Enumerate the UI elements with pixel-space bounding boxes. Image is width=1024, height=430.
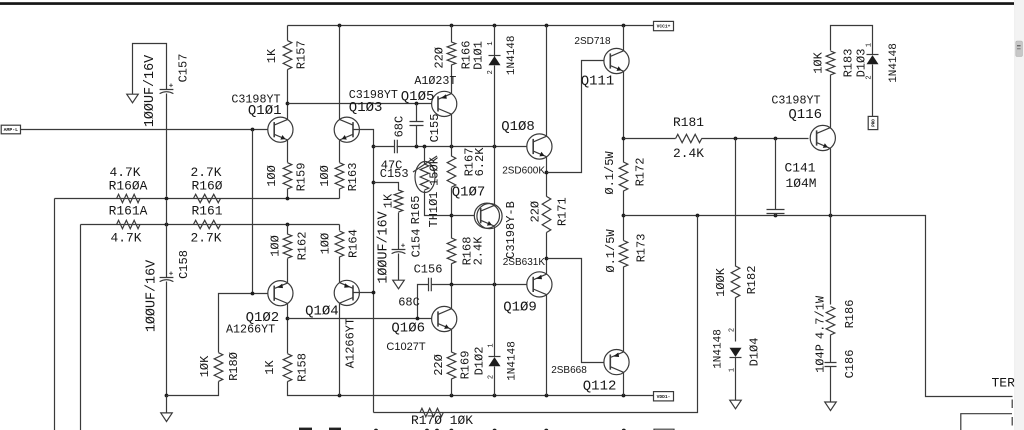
node Q102 collector / Q106 base line — [286, 317, 290, 321]
wire input col to C158 — [166, 201, 168, 278]
svg-text:C154: C154 — [409, 229, 423, 258]
svg-text:4.7K: 4.7K — [111, 231, 142, 246]
net label VCC1+ — [654, 21, 674, 30]
svg-text:1ØØ: 1ØØ — [268, 235, 282, 257]
node Q101 collector — [286, 102, 290, 106]
wire D102 bottom lead — [494, 367, 496, 396]
svg-text:1ØØ: 1ØØ — [318, 165, 332, 187]
wire C186 to ground — [830, 367, 832, 403]
svg-text:R165: R165 — [409, 196, 423, 225]
svg-text:VCC1+: VCC1+ — [657, 24, 671, 30]
svg-text:R169: R169 — [459, 351, 473, 380]
scrollbar thumb — [1016, 41, 1023, 57]
bottom cut text marks — [299, 428, 312, 430]
wire Q106 base row — [288, 318, 432, 320]
wire Q108 emitter — [546, 157, 548, 197]
svg-text:2SB668: 2SB668 — [551, 365, 587, 376]
net label PRO — [868, 116, 878, 129]
svg-text:R16Ø: R16Ø — [192, 179, 223, 194]
svg-text:Q116: Q116 — [788, 107, 822, 123]
resistor R181 2.4K — [676, 134, 702, 142]
svg-text:1: 1 — [865, 43, 873, 47]
svg-text:VDD1-: VDD1- — [657, 394, 671, 400]
svg-text:1ØØUF/16V: 1ØØUF/16V — [144, 260, 159, 332]
bottom cut dot — [544, 429, 548, 430]
svg-text:C186: C186 — [843, 350, 857, 379]
node neg rail Q109 collector — [545, 394, 549, 398]
wire left column B — [80, 225, 82, 430]
resistor R161 2.7K — [193, 220, 220, 228]
svg-text:22Ø: 22Ø — [433, 47, 447, 69]
svg-text:R186: R186 — [843, 300, 857, 329]
wire Q101 emitter to R159 — [287, 141, 289, 163]
node Q102 base — [251, 292, 255, 296]
resistor R186 4.7/1W — [826, 307, 835, 336]
wire Q116 collector to R183 — [830, 75, 832, 128]
svg-text:Q1Ø7: Q1Ø7 — [452, 184, 486, 200]
svg-text:Q1Ø8: Q1Ø8 — [501, 119, 535, 135]
svg-text:2SD600K: 2SD600K — [502, 166, 545, 177]
node row2-R162 — [286, 223, 290, 227]
terminal box 2 — [961, 414, 1012, 430]
svg-text:1N4148: 1N4148 — [506, 341, 518, 381]
svg-text:2.7K: 2.7K — [191, 231, 222, 246]
diode D102 1N4148 — [489, 356, 501, 358]
svg-text:R162: R162 — [295, 232, 309, 261]
wire C141 bottom lead — [775, 214, 777, 216]
wire Q112 collector to neg rail — [623, 373, 625, 396]
diode D101 1N4148 — [489, 55, 501, 57]
wire C158 to ground rail — [166, 282, 168, 396]
node C155 bottom — [415, 145, 419, 149]
svg-text:Q1Ø6: Q1Ø6 — [391, 321, 425, 337]
svg-text:68C: 68C — [398, 295, 420, 309]
svg-text:Q1Ø3: Q1Ø3 — [349, 100, 383, 116]
svg-text:1ØØ: 1ØØ — [265, 165, 279, 187]
node D102 top / Q107 emitter — [493, 283, 497, 287]
svg-text:R159: R159 — [295, 163, 309, 192]
wire input from AMP-L — [21, 129, 268, 131]
node input/base Q101 — [251, 128, 255, 132]
wire C153 right to Q108 base — [397, 146, 527, 148]
wire left column A — [54, 199, 56, 430]
transistor Q107 C3198Y-B — [474, 203, 499, 228]
wire R164 to Q104 emitter — [339, 257, 341, 283]
svg-text:1Ø4P: 1Ø4P — [814, 344, 828, 373]
node rail junction x339 — [338, 24, 342, 28]
capacitor C141 104M — [767, 210, 785, 214]
resistor R167 6.2K — [447, 156, 456, 187]
node rail junction x546 — [545, 24, 549, 28]
node row1-R159 — [286, 197, 290, 201]
wire R173 to Q112 emitter — [623, 267, 625, 352]
svg-text:C3198YT: C3198YT — [771, 94, 820, 108]
bottom cut dot — [337, 429, 341, 430]
wire R162 bottom to Q102 emitter — [287, 225, 289, 235]
wire D103 to PRO — [872, 65, 874, 117]
connector AMP-L — [1, 125, 20, 134]
svg-text:R171: R171 — [555, 197, 569, 226]
node output / right bus — [696, 214, 700, 218]
wire R169 to neg rail — [451, 379, 453, 396]
ground for C186 — [825, 402, 837, 411]
wire rail to Q103 collector — [339, 26, 341, 120]
resistor R157 1K — [283, 41, 292, 70]
capacitor C157 100UF/16V — [160, 90, 174, 94]
wire R165 top jog — [374, 183, 399, 191]
node C155 top tap — [415, 102, 419, 106]
wire Q107 emitter — [494, 227, 496, 285]
node TH101 top — [423, 145, 427, 149]
node feedback at R165 — [372, 181, 376, 185]
svg-text:R158: R158 — [295, 353, 309, 382]
svg-text:1N4148: 1N4148 — [712, 329, 724, 369]
svg-text:C156: C156 — [414, 262, 443, 276]
resistor R159 100 — [283, 163, 292, 189]
svg-text:Q1Ø1: Q1Ø1 — [248, 103, 282, 119]
resistor R182 100K — [731, 266, 740, 298]
node Q116 emitter — [829, 214, 833, 218]
node D101 bottom / Q107 collector — [493, 145, 497, 149]
node neg rail Q104 collector — [338, 394, 342, 398]
svg-text:2: 2 — [487, 70, 495, 74]
wire gnd stub — [166, 396, 168, 413]
capacitor C154 100UF/16V — [392, 250, 406, 254]
resistor R161A 4.7K — [117, 220, 140, 228]
wire to Q112 base — [547, 259, 605, 363]
wire output row — [624, 216, 1013, 397]
node R182 top — [734, 137, 738, 141]
wire Q106 emitter to R169 — [451, 330, 453, 353]
svg-text:C141: C141 — [785, 161, 816, 176]
svg-text:R18Ø: R18Ø — [227, 352, 241, 381]
wire R166 to Q105 emitter — [451, 65, 453, 94]
wire Q105 base row — [288, 103, 432, 105]
resistor R158 1K — [283, 354, 292, 382]
wire Q116 emitter — [830, 149, 832, 305]
wire row1 to R163 — [339, 189, 341, 199]
resistor R160 2.7K — [193, 194, 220, 202]
node C158 ground — [165, 394, 169, 398]
resistor R160A 4.7K — [117, 194, 140, 202]
wire C141 top lead — [775, 139, 777, 210]
svg-text:C1027T: C1027T — [386, 341, 425, 353]
wire R180 top to Q102 base — [219, 294, 268, 353]
resistor R165 1K — [394, 190, 403, 212]
ground for C157 — [127, 94, 139, 103]
wire R182 top lead — [735, 139, 737, 267]
node rail junction x494 — [493, 24, 497, 28]
wire R167 to node — [451, 188, 453, 239]
resistor R164 100 — [335, 231, 344, 257]
node R168/Q106 collector — [450, 283, 454, 287]
node Q104 base / feedback column — [372, 291, 376, 295]
wire TH101 bottom to Q107 base node — [425, 191, 452, 216]
bottom cut dot — [622, 429, 626, 430]
wire row1 — [55, 198, 340, 200]
svg-text:Ø.1/5W: Ø.1/5W — [604, 229, 618, 273]
wire R186 to C186 — [830, 335, 832, 363]
node Q107 base / TH101 — [450, 214, 454, 218]
wire D102 top lead — [494, 285, 496, 357]
wire D101 bottom lead — [494, 66, 496, 147]
wire R166 top — [451, 26, 453, 43]
wire to Q111 base — [547, 61, 605, 173]
svg-text:2SD718: 2SD718 — [574, 36, 611, 47]
svg-text:Q111: Q111 — [581, 73, 615, 89]
wire C156 left bend — [418, 285, 429, 319]
resistor R162 100 — [283, 234, 292, 258]
node Q111 emitter / R181 — [622, 137, 626, 141]
bottom cut dot — [435, 429, 439, 430]
transistor Q112 2SB668 — [604, 350, 629, 375]
node neg rail D102 bottom — [493, 394, 497, 398]
wire R181 to Q116 base — [702, 138, 809, 140]
svg-text:1ØØUF/16V: 1ØØUF/16V — [376, 211, 391, 283]
resistor R183 10K — [826, 51, 835, 75]
svg-text:D1Ø3: D1Ø3 — [855, 49, 869, 78]
transistor Q108 2SD600K — [527, 134, 552, 159]
wire C155 top lead — [416, 104, 418, 122]
svg-text:Q112: Q112 — [583, 378, 617, 394]
svg-text:1ØØUF/16V: 1ØØUF/16V — [143, 55, 158, 127]
svg-text:22Ø: 22Ø — [432, 354, 446, 376]
svg-text:C153: C153 — [380, 167, 409, 181]
svg-text:Ø.1/5W: Ø.1/5W — [603, 151, 617, 195]
scrollbar track — [1015, 0, 1024, 430]
resistor R170 10K — [420, 408, 443, 416]
wire Q103 base — [353, 130, 374, 413]
svg-text:4.7/1W: 4.7/1W — [814, 295, 828, 339]
node rail junction x623 — [622, 24, 626, 28]
resistor R168 2.4K — [447, 238, 456, 264]
wire C155 bottom lead — [416, 126, 418, 147]
node C156 tap on Q106 base — [416, 317, 420, 321]
svg-text:Q1Ø9: Q1Ø9 — [503, 299, 537, 315]
svg-text:R161: R161 — [192, 203, 223, 218]
svg-text:C3198Y-B: C3198Y-B — [504, 201, 518, 259]
svg-text:1K: 1K — [263, 360, 277, 375]
svg-text:R16ØA: R16ØA — [109, 179, 148, 194]
wire Q107 base — [452, 215, 475, 217]
diode D103 1N4148 — [867, 54, 879, 56]
svg-text:AMP-L: AMP-L — [4, 127, 19, 133]
wire R157 to Q101 collector — [287, 70, 289, 120]
svg-text:C155: C155 — [428, 114, 442, 143]
wire row2 — [81, 224, 340, 226]
svg-text:2.4K: 2.4K — [472, 236, 486, 266]
wire Q108 collector to rail — [546, 26, 548, 137]
svg-text:D1Ø2: D1Ø2 — [473, 347, 487, 376]
wire Q111 emitter — [623, 72, 625, 163]
wire R171 to Q109 emitter — [546, 233, 548, 275]
wire R164 — [339, 230, 341, 232]
wire row2 to R164 — [339, 225, 341, 231]
wire C157 to input line — [166, 94, 168, 197]
svg-text:C157: C157 — [177, 54, 191, 83]
bottom cut dot — [374, 429, 378, 430]
transistor Q109 2SB631K — [527, 272, 552, 297]
svg-text:15ØK: 15ØK — [428, 156, 442, 186]
wire R183 top loop — [831, 26, 873, 55]
svg-text:2.4K: 2.4K — [673, 146, 704, 161]
wire C156 to Q109 base — [432, 284, 527, 286]
svg-text:R157: R157 — [295, 40, 309, 69]
svg-text:PRO: PRO — [873, 119, 877, 127]
wire R157 top — [287, 26, 289, 41]
thermistor TH101 ellipse — [415, 162, 435, 193]
wire input to Q102 base — [252, 130, 254, 294]
svg-text:1: 1 — [487, 343, 495, 347]
svg-text:R183: R183 — [842, 49, 856, 78]
wire R181 row left — [624, 138, 676, 140]
svg-text:R17Ø 1ØK: R17Ø 1ØK — [411, 413, 473, 428]
wire TH101 top lead — [424, 147, 426, 165]
wire R162 to Q102 — [287, 259, 289, 283]
node rail junction x451 — [450, 24, 454, 28]
node Q108 emitter / Q111 base — [545, 171, 549, 175]
resistor R171 220 — [542, 196, 551, 232]
thermistor TH101 zigzag — [420, 164, 429, 190]
svg-text:A1266YT: A1266YT — [226, 323, 275, 337]
wire D104 to ground — [735, 358, 737, 401]
wire Q103 emitter to R163 — [339, 141, 341, 163]
svg-text:6.2K: 6.2K — [473, 147, 487, 177]
resistor R169 220 — [447, 352, 456, 379]
node row1-C157 column — [165, 197, 169, 201]
wire R159 to row1 — [287, 189, 289, 199]
resistor R180 10K — [214, 353, 223, 382]
transistor Q101 C3198YT — [268, 117, 293, 142]
wire Q102 collector — [287, 304, 289, 354]
diode D104 1N4148 — [730, 357, 742, 359]
wire R158 to neg rail — [288, 382, 654, 396]
svg-text:1N4148: 1N4148 — [506, 35, 518, 75]
svg-text:1ØK: 1ØK — [198, 355, 212, 377]
svg-text:R173: R173 — [634, 234, 648, 263]
svg-text:D1Ø1: D1Ø1 — [471, 41, 485, 70]
resistor R163 100 — [335, 163, 344, 189]
wire D101 top lead — [494, 26, 496, 57]
svg-text:1ØK: 1ØK — [811, 51, 825, 73]
wire C154 to ground — [398, 254, 400, 281]
wire ground rail left — [167, 382, 219, 396]
resistor R166 220 — [447, 42, 456, 65]
bottom cut dot — [425, 429, 429, 430]
node row2-C158 column — [165, 223, 169, 227]
wire Q107 collector — [494, 147, 496, 206]
thermistor TH101 strike — [413, 156, 437, 172]
svg-text:TER: TER — [992, 376, 1016, 391]
svg-text:R161A: R161A — [109, 203, 148, 218]
wire R167 top — [451, 147, 453, 157]
node neg rail R169 bottom — [450, 394, 454, 398]
terminal dashed line — [1011, 400, 1013, 430]
node C141 bottom — [774, 214, 778, 218]
capacitor C156 68C — [429, 278, 432, 292]
svg-text:22Ø: 22Ø — [529, 201, 543, 223]
bottom cut dot — [493, 429, 497, 430]
capacitor C155 68C — [410, 122, 424, 126]
capacitor C186 104P — [825, 363, 837, 367]
wire R182 to D104 — [735, 298, 737, 342]
wire Q111 collector to rail — [623, 26, 625, 51]
resistor R173 0.1/5W — [619, 241, 628, 268]
svg-text:Q1Ø5: Q1Ø5 — [401, 89, 435, 105]
scrollbar edge — [1013, 0, 1016, 430]
wire Q104 base — [353, 292, 374, 294]
wire R168 to C156 node — [451, 264, 453, 285]
bottom cut box top — [654, 428, 674, 430]
svg-text:2: 2 — [728, 328, 736, 332]
transistor Q106 C1027T — [432, 306, 457, 331]
wire Q106 collector — [451, 285, 453, 309]
node feedback at C153 line — [372, 145, 376, 149]
transistor Q111 2SD718 — [604, 48, 629, 73]
capacitor C153 47C — [395, 140, 398, 154]
svg-text:R181: R181 — [673, 115, 704, 130]
node Q109 emitter / Q112 base — [545, 257, 549, 261]
svg-text:R182: R182 — [745, 266, 759, 295]
transistor Q116 C3198YT — [810, 125, 835, 150]
top border line — [0, 2, 1014, 5]
transistor Q103 C3198YT — [334, 117, 359, 142]
svg-text:Q1Ø4: Q1Ø4 — [305, 303, 339, 319]
wire Q105 collector — [451, 115, 453, 147]
net label VDD1- — [654, 392, 674, 401]
svg-text:A1266YT: A1266YT — [344, 318, 358, 368]
capacitor C158 100UF/16V — [160, 278, 174, 282]
node C141 top — [774, 137, 778, 141]
ground for D104 — [730, 400, 742, 409]
svg-text:1K: 1K — [382, 193, 396, 208]
svg-text:D1Ø4: D1Ø4 — [748, 338, 762, 367]
node neg rail Q112 collector — [622, 394, 626, 398]
wire R165 to C154 — [398, 213, 400, 250]
wire C153 left — [374, 146, 395, 148]
svg-text:68C: 68C — [393, 116, 407, 138]
transistor Q104 A1266YT — [334, 280, 359, 305]
svg-text:1Ø4M: 1Ø4M — [786, 176, 817, 191]
transistor Q105 A1023T — [432, 91, 457, 116]
svg-text:A1Ø23T: A1Ø23T — [414, 74, 456, 88]
node R166/R167 — [450, 145, 454, 149]
bottom cut dot — [449, 429, 453, 430]
wire R172 to R173 — [623, 191, 625, 241]
svg-text:1K: 1K — [265, 48, 279, 63]
transistor Q102 A1266YT — [268, 281, 293, 306]
svg-text:1ØØ: 1ØØ — [318, 233, 332, 255]
svg-text:R164: R164 — [347, 229, 361, 258]
svg-text:1: 1 — [487, 41, 495, 45]
svg-text:1N4148: 1N4148 — [888, 43, 900, 83]
svg-text:C158: C158 — [177, 250, 191, 279]
wire Q109 collector to neg rail — [546, 295, 548, 396]
wire Q104 collector to neg rail — [339, 304, 341, 396]
svg-text:R163: R163 — [346, 163, 360, 192]
ground for C154 — [393, 280, 405, 289]
wire gnd to C157 top — [133, 44, 167, 95]
ground for C158 — [161, 413, 173, 422]
svg-text:1ØØK: 1ØØK — [714, 267, 728, 297]
wire VCC rail — [288, 25, 654, 27]
wire right bus — [374, 216, 698, 413]
node output mid — [622, 214, 626, 218]
resistor R172 0.1/5W — [619, 162, 628, 191]
svg-text:R172: R172 — [634, 158, 648, 187]
svg-text:TH1Ø1: TH1Ø1 — [427, 191, 441, 227]
